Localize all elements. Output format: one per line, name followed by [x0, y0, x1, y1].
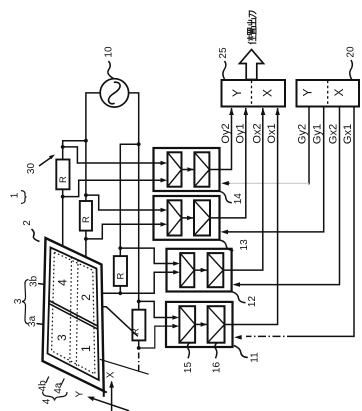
wire: AC right	[129, 93, 139, 310]
amplifier block U12	[167, 249, 232, 292]
svg-text:Gx2: Gx2	[328, 124, 340, 144]
junction	[84, 193, 88, 197]
wire: output	[210, 108, 246, 218]
Y axis arrow	[89, 397, 129, 411]
svg-text:Ox1: Ox1	[266, 123, 278, 143]
junction	[137, 346, 141, 350]
input arrows	[172, 315, 179, 320]
rectifier U12.B	[208, 253, 224, 287]
svg-text:Ox2: Ox2	[252, 123, 264, 143]
wire Gx1	[295, 107, 354, 337]
svg-text:Gy2: Gy2	[297, 124, 309, 144]
wire: AC left	[86, 93, 100, 201]
svg-text:4: 4	[55, 279, 69, 286]
svg-text:11: 11	[250, 352, 261, 363]
svg-text:16: 16	[212, 362, 223, 374]
svg-text:13: 13	[239, 239, 250, 251]
wire Gx2	[240, 107, 340, 285]
input arrows	[161, 208, 168, 213]
wire: R3 top to U12 input +	[120, 248, 173, 263]
junction	[84, 139, 88, 143]
junction	[118, 291, 122, 295]
svg-text:3a: 3a	[27, 315, 38, 327]
wire: output	[225, 108, 278, 324]
svg-text:15: 15	[183, 362, 194, 374]
svg-text:10: 10	[104, 46, 115, 58]
wire: panel lower diagonal	[100, 359, 149, 374]
junction	[118, 246, 122, 250]
wire: stage coupling	[195, 323, 207, 325]
svg-text:2: 2	[79, 294, 93, 301]
wire Gy1	[227, 107, 324, 232]
rectifier U11.B	[208, 306, 225, 343]
resistor R2	[80, 201, 92, 231]
svg-text:1: 1	[10, 192, 21, 198]
amplifier U12.A	[180, 253, 194, 287]
touch panel inner sheet	[48, 248, 99, 381]
svg-text:Y: Y	[75, 390, 86, 397]
amplifier block U14	[154, 148, 220, 191]
amplifier U14.A	[168, 152, 182, 186]
wire: R4 top to U11 input +	[139, 301, 173, 317]
junction	[137, 142, 141, 146]
divider between quadrants (solid double)	[49, 301, 98, 327]
wire: to R1 top	[63, 141, 86, 160]
svg-text:1: 1	[79, 345, 93, 352]
wire: R4 bottom	[138, 340, 140, 348]
wire: to U13 input +	[86, 195, 161, 210]
wire: R3 bottom / panel tap	[119, 286, 121, 293]
svg-text:3: 3	[55, 334, 69, 341]
wire: output	[223, 108, 262, 270]
wire: dash stub below R4	[138, 353, 140, 371]
label 位置出力 (position output)	[247, 36, 255, 44]
wire Gy2	[308, 107, 310, 185]
svg-text:3b: 3b	[29, 275, 40, 287]
resistor R3	[114, 256, 127, 286]
junction	[137, 300, 141, 304]
wire: R2 bottom	[85, 231, 87, 258]
amplifier U13.A	[168, 200, 182, 235]
wire: output	[209, 108, 231, 170]
svg-text:4: 4	[42, 398, 53, 404]
gain control box U20	[297, 80, 360, 107]
svg-text:20: 20	[346, 46, 357, 58]
wire: panel right tap to R3 bottom	[102, 292, 121, 294]
touch panel outer frame (2)	[43, 238, 104, 391]
svg-text:X: X	[106, 371, 117, 378]
wire: R1 bottom to U14 input -	[63, 180, 161, 196]
svg-text:X: X	[261, 89, 275, 97]
svg-text:R: R	[81, 216, 92, 223]
resistor R4	[132, 310, 145, 341]
svg-text:Oy2: Oy2	[220, 123, 232, 143]
wire: R4 bottom to U11 input -	[139, 326, 173, 348]
dotted electrode border	[52, 252, 95, 374]
input arrows	[161, 161, 168, 166]
converter box U25	[222, 80, 286, 107]
wire: R1 bottom	[62, 189, 64, 246]
svg-text:Gy1: Gy1	[312, 124, 324, 144]
svg-text:X: X	[332, 88, 346, 96]
wire: stage coupling	[182, 217, 194, 219]
svg-text:Oy1: Oy1	[235, 123, 247, 143]
wire: to R3 top	[120, 144, 138, 256]
wire: stage coupling	[182, 169, 194, 171]
svg-text:30: 30	[26, 163, 37, 175]
resistor R1 (30)	[56, 160, 69, 190]
svg-text:R: R	[58, 176, 69, 183]
input arrows	[173, 261, 180, 266]
svg-text:14: 14	[233, 193, 244, 205]
amplifier block U11	[166, 302, 233, 347]
rectifier U14.B	[194, 152, 209, 186]
junction	[84, 237, 88, 241]
junction	[61, 145, 65, 149]
dotted dividers (vertical)	[70, 257, 72, 365]
svg-text:2: 2	[22, 220, 33, 226]
wire: panel to U12 input -	[102, 272, 174, 293]
X axis arrow	[111, 382, 113, 411]
svg-text:Y: Y	[301, 88, 315, 96]
wire: stage coupling	[194, 269, 206, 271]
rectifier U13.B	[194, 200, 210, 235]
amplifier U11.A	[179, 306, 195, 343]
svg-text:25: 25	[218, 47, 229, 59]
svg-text:Y: Y	[230, 89, 244, 97]
svg-text:12: 12	[247, 296, 258, 308]
wire: R1 top to U14 input +	[63, 147, 161, 163]
junction	[61, 195, 65, 199]
svg-text:Gx1: Gx1	[342, 124, 354, 144]
wire: panel corner 1 tap diagonal	[102, 307, 138, 337]
wire: R2 bottom to U13 input -	[86, 224, 161, 239]
AC source V10	[100, 79, 128, 107]
amplifier block U13	[154, 196, 220, 240]
hollow arrow: position output	[240, 50, 264, 80]
svg-text:R: R	[116, 272, 127, 279]
